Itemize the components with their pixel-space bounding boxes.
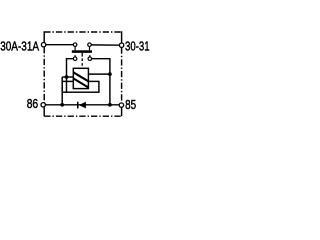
diode D1 cathode bar <box>77 102 79 109</box>
housing left border top segment <box>43 31 45 42</box>
lower-left contact tick <box>74 55 76 57</box>
coil diagonal 2 <box>73 78 88 87</box>
svg-text:85: 85 <box>125 97 136 112</box>
junction dot bottom-right x109.9 <box>108 103 112 107</box>
terminal 85 <box>119 103 123 107</box>
svg-text:30A-31A: 30A-31A <box>0 39 39 54</box>
coil diagonal 1 <box>73 72 88 81</box>
bottom wire: terminal 86 to terminal 85 <box>45 104 119 106</box>
wire B: coil right side to right drop <box>88 73 110 75</box>
movable bridge bar <box>72 50 92 53</box>
junction dot bottom-left x62.2 <box>60 103 64 107</box>
actuator stem (dashed mechanical link) <box>81 53 83 57</box>
wire: lower-right contact over to right drop <box>92 59 110 105</box>
wire: upper-right fixed contact to terminal 30-31 <box>91 44 119 46</box>
left vertical: wire A corner down to bottom wire <box>61 77 63 105</box>
wire: lower-left contact to left drop <box>67 59 74 92</box>
junction dot wire A x66.5 <box>65 75 69 79</box>
upper-right contact tick <box>89 47 91 51</box>
relay coil box <box>73 68 88 88</box>
housing right border mid segment <box>121 48 123 103</box>
lower-right contact tick <box>89 55 91 57</box>
relay housing dash-dot outline <box>44 32 121 116</box>
housing right border top segment <box>121 31 123 43</box>
wire: terminal 30A-31A to upper-left fixed contact <box>46 44 74 46</box>
terminal 30-31 <box>119 43 123 47</box>
resistor rectangle (parallel resistor) <box>62 81 99 92</box>
housing bottom border <box>44 115 121 117</box>
svg-text:86: 86 <box>27 96 38 111</box>
housing left border bottom segment <box>43 107 45 116</box>
upper-right fixed contact circle <box>88 43 92 47</box>
terminal 30A-31A <box>41 43 45 47</box>
housing right border bottom segment <box>121 107 123 116</box>
diode D1 triangle (pointing left) <box>79 102 86 109</box>
relay schematic <box>0 0 150 150</box>
upper-left fixed contact circle <box>73 43 77 47</box>
housing top border <box>44 31 121 33</box>
lower-left fixed contact circle <box>73 57 77 61</box>
upper-left contact tick <box>74 47 76 51</box>
housing left border mid segment <box>43 47 45 102</box>
svg-text:30-31: 30-31 <box>125 39 150 54</box>
wire A: to coil left side <box>62 76 73 78</box>
junction dot wire B x109.9 <box>108 72 112 76</box>
terminal 86 <box>41 103 45 107</box>
lower-right fixed contact circle <box>88 57 92 61</box>
